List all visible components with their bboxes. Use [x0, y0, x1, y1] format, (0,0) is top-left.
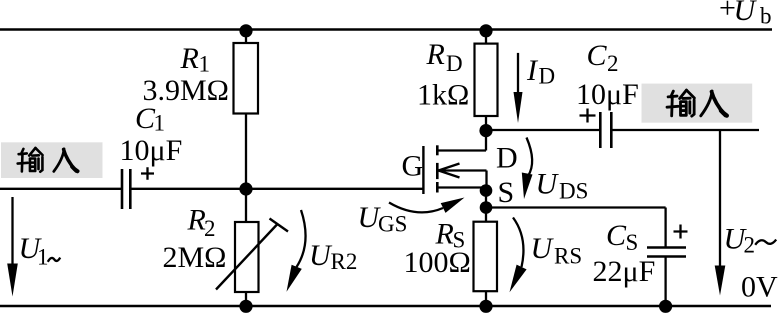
- svg-text:1: 1: [154, 111, 166, 136]
- wire R1 bottom to gate node: [245, 113, 247, 222]
- svg-text:S: S: [626, 230, 639, 255]
- arrow UR2 curved: [297, 210, 306, 267]
- svg-text:I: I: [526, 54, 539, 87]
- MOSFET source stub: [437, 186, 486, 188]
- arrow UR2 head: [287, 265, 302, 292]
- arrow ID head: [514, 92, 523, 123]
- MOSFET body line with substrate arrow: [438, 171, 487, 191]
- hanzi shu (input) left: [18, 148, 43, 172]
- node bottom of RS: [479, 300, 492, 313]
- C1 polarity plus: [141, 167, 154, 179]
- svg-text:R: R: [180, 42, 199, 75]
- wire input line left of C1: [0, 188, 121, 190]
- arrow URS head: [510, 265, 527, 293]
- svg-text:1kΩ: 1kΩ: [417, 79, 469, 112]
- wire RD branch top: [485, 30, 487, 44]
- wire CS bottom plate to rail: [664, 257, 666, 307]
- resistor R2 body (adjustable): [235, 222, 259, 292]
- svg-text:1: 1: [199, 52, 211, 77]
- capacitor CS bottom plate: [647, 255, 686, 258]
- node drain junction: [479, 124, 492, 137]
- svg-text:GS: GS: [378, 212, 407, 237]
- svg-text:R: R: [187, 204, 206, 237]
- svg-text:2: 2: [204, 216, 216, 241]
- wire top supply rail +Ub: [0, 28, 772, 30]
- hanzi ru (input) right: [701, 91, 727, 116]
- svg-text:DS: DS: [559, 179, 588, 204]
- svg-text:U: U: [734, 0, 758, 27]
- svg-text:U: U: [309, 239, 333, 272]
- resistor RS body: [474, 222, 498, 292]
- input label background right: [642, 84, 753, 123]
- MOSFET channel dash middle: [436, 163, 439, 179]
- capacitor C2 left plate: [599, 112, 602, 148]
- wire RD bottom to drain node: [485, 116, 487, 131]
- arrow U1 head: [7, 264, 18, 297]
- resistor RD body: [475, 44, 498, 116]
- node bottom of CS: [659, 300, 672, 313]
- wire R1 branch top: [245, 30, 247, 44]
- wire source node to RS top: [485, 191, 487, 222]
- arrow UGS curved: [389, 203, 443, 213]
- input label background left: [1, 142, 103, 178]
- svg-text:2: 2: [607, 51, 619, 76]
- svg-text:U: U: [536, 168, 560, 201]
- arrow U1 input voltage line: [11, 197, 13, 268]
- wire source node to CS corner: [486, 206, 666, 208]
- hanzi shu (input) right: [667, 90, 694, 116]
- svg-text:22μF: 22μF: [593, 255, 656, 288]
- svg-text:U: U: [531, 232, 555, 265]
- arrow ID drain current line: [517, 53, 519, 98]
- svg-text:C: C: [587, 39, 608, 72]
- arrow U2 output voltage line: [719, 130, 721, 270]
- MOSFET channel dash bottom: [436, 182, 439, 193]
- wire RS bottom to rail: [485, 291, 487, 306]
- svg-text:D: D: [539, 64, 556, 89]
- MOSFET drain stub: [437, 149, 486, 151]
- svg-text:R: R: [426, 38, 445, 71]
- arrow U2 head: [715, 266, 726, 296]
- arrow URS curved: [513, 218, 523, 268]
- C2 polarity plus: [580, 109, 596, 123]
- capacitor C2 right plate: [610, 112, 613, 148]
- node source S2 branch: [480, 201, 493, 214]
- arrow UDS head: [522, 173, 533, 200]
- svg-text:G: G: [402, 150, 424, 183]
- capacitor C1 left plate: [121, 169, 124, 209]
- svg-text:b: b: [760, 4, 772, 29]
- svg-text:2: 2: [744, 233, 756, 258]
- svg-text:10μF: 10μF: [576, 78, 639, 111]
- wire drain to C2 left plate: [486, 129, 600, 131]
- wire C2 right plate to output end: [612, 129, 759, 131]
- R2 adjustment end tick: [270, 219, 289, 232]
- node source S1: [480, 184, 493, 197]
- svg-text:100Ω: 100Ω: [404, 246, 471, 279]
- svg-text:C: C: [606, 219, 627, 252]
- arrow UGS head: [441, 198, 465, 213]
- wire C1 to gate of FET: [131, 188, 423, 190]
- svg-text:S: S: [498, 176, 515, 209]
- svg-text:2MΩ: 2MΩ: [163, 241, 227, 274]
- node top of R1: [239, 24, 252, 37]
- svg-text:10μF: 10μF: [120, 134, 183, 167]
- svg-text:0V: 0V: [741, 271, 778, 304]
- CS polarity plus: [674, 225, 688, 239]
- svg-text:R2: R2: [331, 249, 358, 274]
- MOSFET channel dash top: [436, 145, 439, 155]
- MOSFET Q1 gate electrode: [422, 146, 424, 194]
- wire R2 bottom to rail: [245, 292, 247, 306]
- svg-text:RS: RS: [554, 244, 582, 269]
- MOSFET substrate arrow barbs: [439, 164, 460, 178]
- resistor R1 body: [234, 43, 259, 114]
- R2 adjustment diagonal stroke: [216, 225, 277, 290]
- hanzi ru (input) left: [54, 149, 78, 172]
- capacitor CS top plate: [647, 246, 686, 249]
- node bottom of R2: [239, 300, 252, 313]
- svg-text:D: D: [446, 51, 463, 76]
- node top of RD: [479, 24, 492, 37]
- svg-text:1: 1: [37, 245, 49, 270]
- arrow UDS curved: [527, 138, 533, 177]
- node gate junction: [239, 182, 252, 195]
- wire CS corner down to CS top plate: [664, 208, 666, 248]
- wire drain node down to drain stub: [485, 131, 487, 151]
- svg-text:D: D: [496, 141, 518, 174]
- capacitor C1 right plate: [129, 169, 132, 209]
- wire bottom 0V rail: [0, 305, 771, 308]
- svg-text:3.9MΩ: 3.9MΩ: [143, 74, 229, 107]
